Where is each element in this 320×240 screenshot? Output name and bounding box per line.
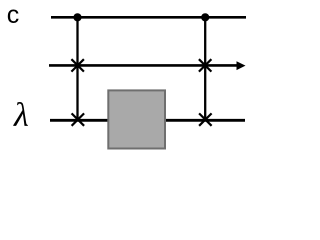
cross X1 (left, middle wire) bbox=[71, 59, 84, 71]
arrowhead on middle wire bbox=[237, 61, 246, 70]
vertical wire 2 (right control line) bbox=[204, 17, 206, 120]
svg-text:λ: λ bbox=[13, 97, 29, 134]
wire lambda (bottom horizontal wire) bbox=[50, 119, 245, 122]
control dot 1 on wire c bbox=[73, 13, 81, 21]
gate box (gray block on lambda wire) bbox=[108, 90, 165, 148]
cross X4 (right, bottom wire) bbox=[199, 113, 212, 125]
cross X3 (right, middle wire) bbox=[199, 59, 212, 71]
svg-text:c: c bbox=[7, 1, 19, 29]
wire middle (arrow wire) bbox=[49, 64, 238, 67]
wire c (top horizontal wire) bbox=[51, 16, 246, 19]
vertical wire 1 (left control line) bbox=[76, 17, 78, 120]
control dot 2 on wire c bbox=[201, 13, 209, 21]
cross X2 (left, bottom wire) bbox=[72, 113, 85, 125]
